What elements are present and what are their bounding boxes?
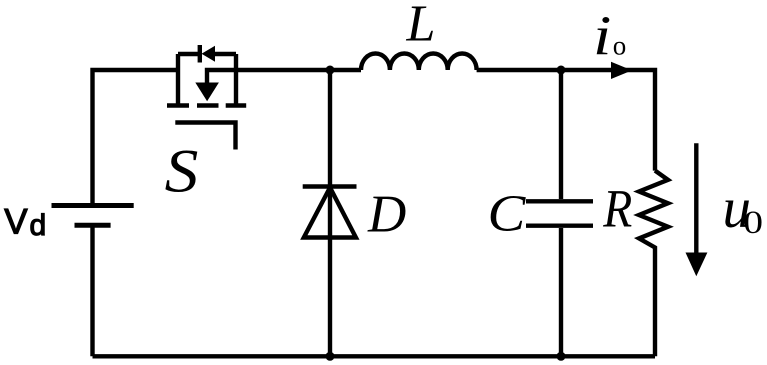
svg-text:i: i: [593, 5, 611, 67]
svg-text:L: L: [406, 0, 436, 53]
svg-text:0: 0: [743, 204, 763, 240]
svg-text:C: C: [488, 185, 527, 242]
svg-text:D: D: [367, 186, 406, 244]
svg-text:R: R: [602, 180, 632, 239]
svg-text:S: S: [165, 137, 199, 204]
svg-text:V: V: [4, 203, 28, 242]
svg-text:d: d: [30, 209, 47, 242]
svg-text:o: o: [613, 30, 627, 60]
